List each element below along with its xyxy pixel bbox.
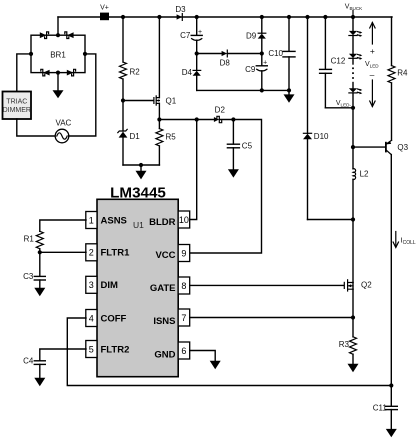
wire D1-R5 bottom <box>123 163 159 167</box>
pin 1 ASNS <box>86 212 127 229</box>
svg-text:ISNS: ISNS <box>153 316 175 327</box>
svg-text:U1: U1 <box>133 220 144 230</box>
node switch node junction <box>351 217 355 221</box>
svg-text:TRIAC: TRIAC <box>6 99 27 106</box>
wire D10 bottom to switch node <box>308 219 354 221</box>
svg-text:Q2: Q2 <box>361 281 372 290</box>
svg-text:GATE: GATE <box>150 283 176 294</box>
svg-text:5: 5 <box>89 344 94 354</box>
capacitor C5 <box>227 120 252 170</box>
node Q3 base junction <box>351 145 355 149</box>
TRIAC DIMMER box <box>3 92 32 120</box>
zener diode D1 <box>118 101 140 166</box>
svg-text:C10: C10 <box>268 49 283 58</box>
wire LED1-LED2 <box>352 36 354 54</box>
wire LED3 stub <box>352 83 354 89</box>
svg-text:D1: D1 <box>130 132 141 141</box>
inductor L2 <box>353 147 369 282</box>
pin 10 BLDR <box>149 211 190 228</box>
wire LED3 to VLED- node <box>352 93 354 147</box>
wire GATE to Q2 <box>190 284 344 286</box>
resistor R1 <box>24 231 44 252</box>
diode D10 <box>303 17 329 220</box>
diode D8 <box>197 50 262 68</box>
ground below R3 <box>348 364 359 372</box>
node VBUCK <box>345 4 363 17</box>
svg-text:ASNS: ASNS <box>101 215 127 226</box>
svg-text:C3: C3 <box>23 272 34 281</box>
svg-text:R4: R4 <box>397 69 408 78</box>
pin 3 DIM <box>86 276 118 293</box>
svg-text:VCC: VCC <box>155 250 175 261</box>
svg-text:BLDR: BLDR <box>149 217 176 228</box>
diode D4 <box>182 54 201 91</box>
wire D2 to VCC drop <box>190 120 262 254</box>
resistor R3 <box>339 318 357 364</box>
ICOLL arrow <box>393 232 416 248</box>
svg-text:+: + <box>370 46 375 56</box>
transistor Q3 <box>386 140 409 154</box>
capacitor C3 <box>23 252 45 287</box>
transistor Q2 <box>344 280 372 318</box>
wire ASNS to R1 <box>40 220 86 231</box>
wire bridge top stub <box>57 17 59 35</box>
svg-text:R3: R3 <box>339 340 350 349</box>
svg-text:BR1: BR1 <box>50 51 66 60</box>
ground below C3 <box>34 288 45 296</box>
wire TRIAC dimmer to VAC <box>17 119 55 136</box>
svg-text:R2: R2 <box>130 68 141 77</box>
ground below C10 <box>284 94 295 102</box>
wire gate of Q1 <box>123 100 153 102</box>
svg-text:DIMMER: DIMMER <box>3 107 31 114</box>
svg-text:+: + <box>263 60 267 67</box>
resistor R5 <box>156 120 176 166</box>
node gate junction <box>121 98 125 102</box>
svg-text:1: 1 <box>89 215 94 225</box>
node FLTR1 junction <box>38 250 42 254</box>
svg-text:COFF: COFF <box>101 313 127 324</box>
svg-text:D10: D10 <box>314 132 329 141</box>
svg-text:R1: R1 <box>24 234 35 243</box>
svg-text:C12: C12 <box>331 57 346 66</box>
wire Q1 source to D2 <box>159 119 214 121</box>
node C10 bottom junction <box>287 88 291 92</box>
LED 3 <box>349 88 362 94</box>
svg-text:7: 7 <box>181 313 186 323</box>
resistor R2 <box>120 17 141 101</box>
node bottom rail junction <box>389 383 393 387</box>
svg-text:9: 9 <box>181 248 186 258</box>
svg-text:DIM: DIM <box>101 280 119 291</box>
svg-text:C9: C9 <box>245 65 256 74</box>
LED 1 <box>349 31 362 37</box>
node C9 bottom junction <box>260 88 264 92</box>
ground below C5 <box>228 169 239 177</box>
AC source VAC <box>55 119 71 143</box>
ground below bridge <box>53 73 64 99</box>
svg-text:10: 10 <box>179 215 189 225</box>
transistor Q1 <box>154 17 177 120</box>
node D8/D9 junction <box>260 51 264 55</box>
svg-text:3: 3 <box>89 280 94 290</box>
diode D9 <box>246 17 266 66</box>
capacitor C7 <box>180 17 202 54</box>
capacitor C4 <box>23 357 45 378</box>
svg-text:D4: D4 <box>182 68 193 77</box>
capacitor C10 <box>268 17 295 94</box>
ground at GND pin <box>210 361 221 369</box>
svg-text:VAC: VAC <box>55 119 71 128</box>
ground below C11 <box>386 429 397 437</box>
node C5 junction <box>231 117 235 121</box>
capacitor C12 <box>320 17 346 108</box>
wire FLTR2 to C4 <box>40 349 86 361</box>
node rail junctions <box>121 15 355 19</box>
wire Q3 collector down <box>390 155 392 386</box>
svg-text:C5: C5 <box>242 142 253 151</box>
svg-text:V+: V+ <box>100 5 109 12</box>
LED 2 <box>349 54 362 60</box>
bridge rectifier BR1 <box>29 32 87 76</box>
svg-text:GND: GND <box>154 350 175 361</box>
node ellipsis dots <box>352 67 354 79</box>
capacitor C9 <box>245 60 267 91</box>
LED string wire <box>352 17 354 31</box>
svg-text:6: 6 <box>181 346 186 356</box>
ground below D1/R5 <box>136 165 147 179</box>
svg-text:4: 4 <box>89 313 94 323</box>
svg-text:Q3: Q3 <box>397 143 408 152</box>
wire ISNS to R3 node <box>190 317 353 319</box>
svg-text:D9: D9 <box>246 31 257 40</box>
svg-text:L2: L2 <box>360 169 369 178</box>
wire GND pin to ground <box>190 351 216 361</box>
node VLED- <box>336 100 355 110</box>
pin 5 FLTR2 <box>86 341 130 358</box>
chip body U1 LM3445 <box>97 184 178 376</box>
wire top V+ rail <box>58 16 392 18</box>
svg-text:8: 8 <box>181 281 186 291</box>
node Q1 source junction <box>157 117 161 121</box>
svg-text:Q1: Q1 <box>166 96 177 105</box>
diode D3 <box>175 5 186 21</box>
svg-text:FLTR2: FLTR2 <box>101 344 130 355</box>
svg-text:C11: C11 <box>373 403 388 412</box>
svg-text:–: – <box>370 70 375 80</box>
svg-text:LM3445: LM3445 <box>110 184 166 201</box>
pin 6 GND <box>154 342 189 361</box>
node BLDR junction <box>195 117 199 121</box>
svg-text:C4: C4 <box>23 357 34 366</box>
node C7/D8/D4 junction <box>195 51 199 55</box>
svg-text:FLTR1: FLTR1 <box>101 248 131 259</box>
wire charge pump bottom <box>197 89 289 91</box>
node ISNS junction <box>351 315 355 319</box>
svg-text:D3: D3 <box>175 5 186 14</box>
svg-text:R5: R5 <box>166 133 177 142</box>
node V+ <box>100 5 109 21</box>
wire VAC to bridge right <box>69 54 96 136</box>
wire BLDR drop to pin 10 <box>190 120 197 220</box>
wire bridge left to TRIAC dimmer <box>17 54 31 92</box>
schottky diode D2 <box>214 106 226 123</box>
wire COFF to bottom rail <box>67 318 391 386</box>
wire FLTR1 pin 2 <box>40 251 86 253</box>
svg-text:D2: D2 <box>215 106 226 115</box>
capacitor C11 <box>373 386 398 429</box>
resistor R4 <box>388 17 408 140</box>
svg-text:+: + <box>198 29 202 36</box>
VLED sense arrow <box>365 23 379 107</box>
pin 8 GATE <box>150 277 190 294</box>
wire Q3 base <box>353 146 385 148</box>
pin 4 COFF <box>86 310 127 327</box>
wire C12 to VLED- node <box>325 107 353 109</box>
pin 7 ISNS <box>153 309 189 327</box>
wire LED2 stub <box>352 58 354 64</box>
svg-text:2: 2 <box>89 248 94 258</box>
pin 9 VCC <box>155 245 189 262</box>
svg-text:D8: D8 <box>220 59 231 68</box>
pin 2 FLTR1 <box>86 244 130 261</box>
svg-text:C7: C7 <box>180 31 191 40</box>
ground below C4 <box>34 378 45 386</box>
